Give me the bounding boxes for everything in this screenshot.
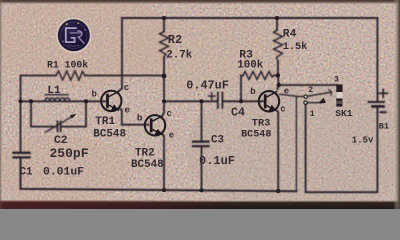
svg-text:TR2: TR2: [135, 148, 155, 160]
svg-text:c: c: [280, 105, 285, 115]
svg-text:e: e: [169, 131, 174, 141]
svg-text:b: b: [250, 87, 255, 97]
svg-text:1: 1: [310, 110, 315, 119]
svg-text:BC548: BC548: [131, 159, 164, 171]
svg-text:1.5k: 1.5k: [283, 41, 307, 53]
svg-text:b: b: [137, 114, 142, 124]
svg-text:L1: L1: [47, 85, 61, 97]
svg-text:2: 2: [308, 86, 313, 95]
svg-text:0.1uF: 0.1uF: [199, 154, 235, 168]
svg-text:b: b: [92, 90, 97, 100]
svg-text:e: e: [284, 87, 289, 97]
svg-text:0.01uF: 0.01uF: [43, 166, 84, 178]
svg-text:R4: R4: [283, 28, 297, 40]
svg-text:BC548: BC548: [241, 129, 271, 140]
svg-text:1.5v: 1.5v: [352, 136, 374, 146]
svg-text:BC548: BC548: [93, 128, 126, 140]
svg-text:0.47uF: 0.47uF: [186, 79, 228, 93]
svg-text:TR1: TR1: [95, 116, 115, 128]
svg-text:C3: C3: [211, 134, 224, 146]
svg-text:100k: 100k: [237, 60, 263, 72]
svg-text:c: c: [167, 109, 172, 119]
svg-text:3: 3: [334, 75, 339, 84]
svg-text:2.7k: 2.7k: [166, 49, 192, 61]
svg-text:B1: B1: [379, 122, 389, 132]
svg-text:e: e: [125, 106, 130, 116]
svg-text:c: c: [124, 83, 129, 93]
svg-text:R1 100k: R1 100k: [47, 60, 88, 71]
svg-text:250pF: 250pF: [50, 146, 89, 161]
svg-text:C1: C1: [20, 166, 33, 178]
svg-text:R2: R2: [168, 33, 182, 47]
svg-text:TR3: TR3: [252, 118, 271, 130]
svg-text:SK1: SK1: [335, 108, 353, 119]
svg-text:C4: C4: [231, 106, 245, 119]
